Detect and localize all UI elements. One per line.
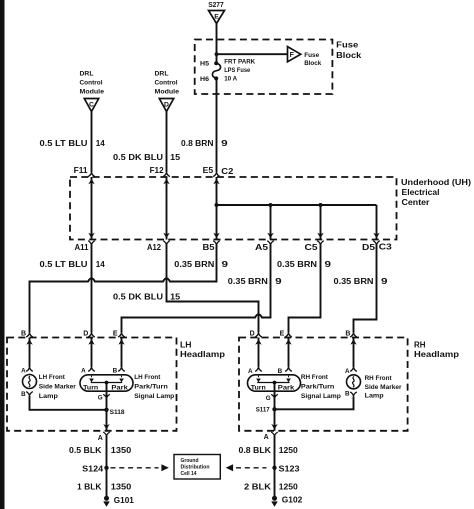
svg-text:Park: Park	[278, 385, 295, 391]
svg-text:Side Marker: Side Marker	[39, 384, 76, 391]
wire LH lamp G to ground exit	[106, 397, 108, 431]
svg-text:Block: Block	[304, 60, 321, 67]
svg-text:Module: Module	[155, 88, 180, 95]
wire C5 to RH lamp E 0.35 BRN 9	[289, 245, 321, 333]
dashed reference S124 to ground distribution	[111, 467, 159, 469]
svg-text:H5: H5	[200, 61, 209, 68]
wire module D to F12 0.5 DK BLU 15	[166, 112, 168, 172]
wire to LH side marker A	[29, 338, 31, 367]
svg-text:1250: 1250	[279, 483, 299, 492]
wire LH ground 0.5 BLK 1350	[106, 436, 108, 498]
svg-text:S117: S117	[256, 407, 270, 414]
ground G101	[104, 496, 109, 501]
svg-text:Center: Center	[402, 198, 430, 207]
svg-text:C3: C3	[379, 243, 393, 252]
RH front park-turn signal lamp	[255, 366, 262, 371]
svg-text:14: 14	[96, 260, 106, 269]
off-page connector triangle E (S277)	[209, 11, 225, 24]
fuse terminal H5	[214, 61, 218, 65]
wire RH lamp G to ground exit	[274, 397, 276, 431]
svg-text:E: E	[214, 13, 219, 20]
svg-text:Underhood (UH): Underhood (UH)	[401, 178, 471, 187]
svg-text:D: D	[164, 101, 169, 108]
svg-text:0.5 DK BLU: 0.5 DK BLU	[113, 293, 163, 302]
svg-text:A: A	[81, 367, 86, 374]
svg-text:C: C	[89, 101, 94, 108]
junction C5 branch	[319, 203, 323, 207]
wire to LH park-turn A	[91, 338, 93, 367]
svg-text:E: E	[280, 331, 285, 338]
svg-text:LH Front: LH Front	[39, 374, 66, 381]
svg-text:0.5 BLK: 0.5 BLK	[69, 446, 102, 455]
off-page connector triangle F to Fuse Block detail	[288, 47, 301, 62]
svg-text:B: B	[21, 331, 26, 338]
svg-text:Cell 14: Cell 14	[181, 471, 198, 477]
fuse FRT PARK LPS 10A element	[212, 63, 220, 78]
junction A5 branch	[269, 203, 273, 207]
svg-text:Control: Control	[80, 80, 103, 87]
wire A12 to RH lamp D 0.5 DK BLU 15	[167, 245, 259, 333]
wire fuse to UH center 0.8 BRN 9	[216, 78, 218, 171]
splice S123	[272, 466, 276, 470]
wire LH side marker B to S118	[30, 396, 107, 409]
connector A11	[88, 233, 94, 239]
wire RH side marker B to S117	[275, 397, 354, 410]
connector F11	[88, 172, 95, 177]
splice S117	[272, 407, 276, 411]
svg-text:0.8 BRN: 0.8 BRN	[181, 139, 214, 148]
svg-text:9: 9	[221, 139, 228, 148]
svg-text:RH Front: RH Front	[365, 375, 393, 382]
svg-text:Turn: Turn	[83, 385, 98, 391]
svg-text:Fuse: Fuse	[304, 52, 319, 59]
svg-text:E5: E5	[203, 166, 214, 175]
wire module C to F11 0.5 LT BLU 14	[91, 112, 93, 172]
svg-text:S123: S123	[279, 464, 301, 473]
wire to RH park-turn B	[288, 338, 290, 367]
splice S124	[104, 466, 108, 470]
svg-text:9: 9	[325, 260, 332, 269]
svg-text:0.5 LT BLU: 0.5 LT BLU	[40, 139, 88, 148]
wire to RH side marker A	[353, 338, 355, 367]
svg-text:Control: Control	[155, 80, 178, 87]
wire A11 to LH lamp D 0.5 LT BLU 14	[91, 245, 93, 333]
svg-text:C5: C5	[305, 243, 319, 252]
svg-text:Distribution: Distribution	[181, 465, 211, 471]
svg-text:DRL: DRL	[155, 71, 169, 78]
svg-text:B5: B5	[203, 243, 216, 252]
UH internal wire F12 to A12	[166, 177, 168, 240]
UH internal wire F11 to A11	[91, 177, 93, 240]
connector E5 of C2	[213, 172, 220, 177]
svg-text:0.35 BRN: 0.35 BRN	[228, 277, 268, 286]
connector A LH ground exit	[103, 424, 109, 430]
svg-text:Park: Park	[111, 385, 128, 391]
svg-text:A: A	[248, 368, 253, 375]
svg-text:B: B	[21, 391, 26, 398]
svg-text:DRL: DRL	[80, 71, 94, 78]
svg-text:1 BLK: 1 BLK	[77, 483, 102, 492]
svg-text:LH: LH	[180, 341, 192, 350]
wire B5 to LH side marker B 0.35 BRN 9	[30, 245, 217, 333]
svg-text:0.5 LT BLU: 0.5 LT BLU	[40, 260, 88, 269]
svg-text:9: 9	[222, 260, 229, 269]
svg-text:A: A	[21, 367, 26, 374]
LH headlamp dashed outline	[7, 338, 177, 431]
svg-text:B: B	[345, 331, 350, 338]
svg-text:14: 14	[96, 139, 106, 148]
svg-text:D: D	[83, 331, 88, 338]
svg-text:C2: C2	[221, 167, 234, 176]
wire RH ground 0.8 BLK 1250	[274, 436, 276, 498]
svg-text:9: 9	[275, 277, 282, 286]
svg-text:A: A	[345, 368, 350, 375]
connector A RH ground exit	[271, 424, 277, 430]
svg-text:A12: A12	[147, 243, 162, 252]
svg-text:0.35 BRN: 0.35 BRN	[334, 277, 374, 286]
svg-text:15: 15	[170, 153, 181, 162]
junction E5 bus	[215, 203, 219, 207]
svg-text:Turn: Turn	[251, 385, 266, 391]
LH front side marker lamp	[26, 366, 33, 371]
svg-text:H6: H6	[200, 76, 209, 83]
svg-text:1250: 1250	[279, 446, 299, 455]
svg-text:G101: G101	[114, 496, 135, 505]
ground G102	[272, 496, 277, 501]
svg-text:15: 15	[170, 293, 181, 302]
svg-text:S118: S118	[110, 409, 125, 416]
wire A5 to LH lamp E 0.35 BRN 9	[122, 245, 271, 333]
svg-text:0.5 DK BLU: 0.5 DK BLU	[113, 153, 163, 162]
wire fuse input vertical	[216, 40, 218, 64]
svg-text:Lamp: Lamp	[39, 393, 58, 400]
RH front side marker lamp	[350, 366, 357, 371]
connector F12	[163, 172, 170, 177]
svg-text:Lamp: Lamp	[365, 393, 384, 400]
svg-text:D: D	[250, 331, 255, 338]
fuse block dashed outline	[195, 40, 333, 95]
svg-text:Fuse: Fuse	[336, 41, 359, 50]
connector A5	[267, 233, 273, 239]
svg-text:B: B	[278, 368, 283, 375]
svg-text:0.8 BLK: 0.8 BLK	[239, 446, 272, 455]
svg-text:Signal Lamp: Signal Lamp	[301, 393, 341, 400]
svg-text:B: B	[345, 390, 350, 397]
junction at fuse feed	[215, 52, 219, 56]
svg-text:A: A	[264, 434, 269, 441]
svg-text:0.35 BRN: 0.35 BRN	[277, 260, 317, 269]
svg-text:Module: Module	[80, 88, 105, 95]
RH headlamp dashed outline	[239, 338, 408, 431]
svg-text:Ground: Ground	[181, 458, 199, 464]
svg-text:Block: Block	[336, 51, 362, 60]
svg-text:S124: S124	[82, 464, 104, 473]
svg-text:Electrical: Electrical	[402, 188, 440, 197]
svg-text:10 A: 10 A	[224, 76, 237, 83]
svg-text:1350: 1350	[111, 446, 132, 455]
ground distribution cell 14 box	[174, 455, 220, 480]
svg-text:A11: A11	[75, 243, 90, 252]
svg-text:0.35 BRN: 0.35 BRN	[174, 260, 214, 269]
svg-text:D5: D5	[362, 243, 376, 252]
svg-text:Side Marker: Side Marker	[365, 384, 402, 391]
svg-text:G: G	[98, 395, 103, 402]
wire from S277 into fuse block	[216, 24, 218, 41]
svg-text:A5: A5	[255, 243, 269, 252]
svg-text:A: A	[98, 435, 103, 442]
connector D5 of C3	[373, 233, 379, 239]
svg-text:Headlamp: Headlamp	[180, 350, 225, 359]
svg-text:2 BLK: 2 BLK	[244, 483, 271, 492]
svg-text:RH Front: RH Front	[301, 374, 329, 381]
wire to RH park-turn A	[258, 338, 260, 367]
wire D5 to RH side marker B 0.35 BRN 9	[354, 245, 377, 333]
svg-text:Headlamp: Headlamp	[414, 350, 459, 359]
svg-text:G102: G102	[282, 496, 303, 505]
svg-text:Park/Turn: Park/Turn	[301, 384, 335, 391]
svg-text:1350: 1350	[111, 483, 132, 492]
wire junction to off-page F	[217, 53, 288, 55]
svg-text:G: G	[266, 395, 271, 402]
svg-text:Signal Lamp: Signal Lamp	[134, 393, 174, 400]
svg-text:LPS Fuse: LPS Fuse	[224, 67, 250, 74]
wire to LH park-turn B	[121, 338, 123, 367]
svg-text:RH: RH	[414, 341, 426, 350]
UH internal wire E5 to B5 and park lamp bus	[216, 177, 218, 240]
svg-text:F11: F11	[74, 166, 89, 175]
svg-text:E: E	[113, 331, 118, 338]
LH front park-turn signal lamp	[88, 366, 95, 371]
underhood electrical center dashed outline	[70, 177, 397, 240]
svg-text:Park/Turn: Park/Turn	[134, 384, 168, 391]
svg-text:LH Front: LH Front	[134, 374, 161, 381]
svg-text:S277: S277	[208, 2, 224, 9]
svg-text:F12: F12	[150, 166, 165, 175]
fuse terminal H6	[214, 76, 218, 80]
svg-text:9: 9	[381, 277, 388, 286]
dashed reference S123 to ground distribution	[226, 464, 233, 471]
svg-text:B: B	[113, 367, 118, 374]
connector C5	[317, 233, 323, 239]
svg-text:FRT PARK: FRT PARK	[224, 59, 255, 66]
connector B5	[213, 233, 219, 239]
splice S118	[104, 408, 108, 412]
connector A12	[163, 233, 169, 239]
svg-text:F: F	[290, 52, 295, 59]
